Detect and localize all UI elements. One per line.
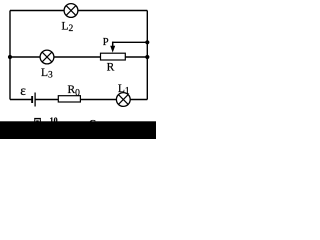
node junction dot left (middle branch) — [8, 55, 12, 59]
battery cell: long thin positive plate — [34, 93, 36, 107]
battery cell: short thick negative plate — [31, 96, 33, 103]
wire right vertical — [146, 11, 148, 100]
resistor R0 box — [58, 96, 80, 102]
wiper arrowhead — [110, 46, 115, 53]
wiper arm stem — [112, 42, 114, 47]
wire middle branch (through L3 and R) — [10, 56, 147, 58]
caption fragment: boxed CJK glyph (figure mark), mostly hidden by bar — [34, 118, 41, 122]
lamp L1 — [116, 93, 130, 107]
wire top (left node to right node through L2) — [10, 10, 147, 12]
node junction dot right upper (wiper) — [145, 40, 149, 44]
svg-text:ε: ε — [20, 83, 26, 98]
wire left vertical — [9, 11, 11, 100]
node junction dot right lower (middle branch) — [145, 55, 149, 59]
black redaction bar — [0, 121, 156, 139]
wire bottom right segment (battery to right node) — [35, 99, 147, 101]
wire wiper to right node — [113, 41, 148, 43]
lamp L2 — [64, 4, 78, 18]
wire bottom left segment (to battery) — [10, 99, 32, 101]
svg-text:R: R — [107, 62, 115, 74]
lamp L3 — [40, 50, 54, 64]
svg-text:P: P — [103, 37, 109, 48]
rheostat R box — [101, 53, 126, 60]
